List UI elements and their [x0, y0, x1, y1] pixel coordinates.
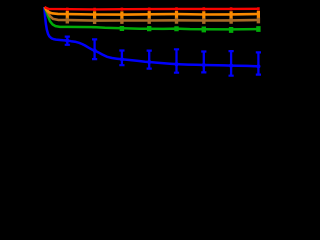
orange error bars	[67, 11, 258, 19]
green series line	[45, 7, 260, 29]
blue error bars	[67, 37, 258, 76]
red error bars	[67, 7, 258, 11]
blue error bar caps	[65, 37, 261, 76]
red series line	[45, 7, 260, 9]
blue series line	[44, 7, 258, 66]
brown error bars	[67, 18, 258, 25]
orange series line	[45, 7, 260, 15]
green error bars / square markers	[67, 26, 258, 33]
brown series line	[45, 7, 260, 21]
blue data point markers	[65, 39, 69, 43]
